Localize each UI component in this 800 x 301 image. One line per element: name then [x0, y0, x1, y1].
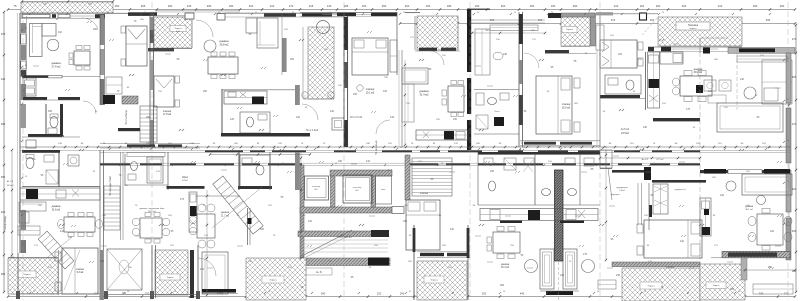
- dimension chain right: [795, 25, 797, 292]
- svg-text:320: 320: [482, 292, 487, 296]
- dimension chain right2: [788, 60, 790, 250]
- svg-text:305: 305: [48, 110, 53, 113]
- sofa RL: [742, 174, 792, 195]
- svg-text:210: 210: [200, 268, 205, 271]
- svg-text:210: 210: [740, 78, 745, 81]
- corridor mid details: [332, 118, 344, 130]
- svg-text:150: 150: [290, 58, 295, 61]
- svg-text:150: 150: [403, 220, 408, 223]
- svg-text:5.6м2: 5.6м2: [619, 190, 625, 192]
- door arc A2: [196, 20, 213, 37]
- shower LL: [46, 170, 58, 184]
- bed RL: [644, 220, 702, 258]
- stairs A1: [140, 106, 157, 142]
- svg-text:210: 210: [270, 4, 275, 8]
- long hatched band bottom mid: [298, 258, 390, 266]
- axis lines: [22, 2, 24, 300]
- balcony A3 walls: [414, 16, 416, 50]
- twin couch left: [540, 249, 554, 289]
- svg-text:410: 410: [366, 160, 371, 163]
- sofa A5: [717, 103, 783, 132]
- wall x150: [149, 12, 151, 147]
- balcony A4 border: [591, 13, 596, 46]
- wardrobe RL2: [653, 184, 668, 214]
- axis dashed right: [736, 47, 738, 110]
- svg-text:дневна: дневна: [219, 39, 229, 43]
- dark box top A5: [640, 13, 647, 20]
- svg-text:270: 270: [792, 37, 797, 41]
- svg-text:440: 440: [520, 292, 525, 296]
- svg-text:Тераса: Тераса: [713, 285, 721, 287]
- vertical wall x100 low: [99, 150, 101, 300]
- svg-text:120: 120: [720, 194, 725, 197]
- wardrobe A2b: [390, 40, 397, 72]
- dim marks A4 zone: [472, 32, 545, 34]
- stove A1: [103, 95, 115, 104]
- svg-text:30.4 м2: 30.4 м2: [694, 71, 703, 74]
- svg-text:КЛ.2 А/1.93: КЛ.2 А/1.93: [350, 116, 363, 119]
- svg-text:100: 100: [145, 292, 150, 296]
- X wardrobe room: [107, 249, 142, 290]
- closet A1: [26, 140, 36, 148]
- svg-text:120: 120: [770, 230, 775, 233]
- pillar A2: [282, 38, 287, 72]
- svg-text:Ап 5.Р: Ап 5.Р: [642, 158, 649, 161]
- svg-text:260: 260: [530, 4, 535, 8]
- svg-text:170: 170: [289, 4, 294, 8]
- wall A2 kitchen left: [221, 89, 223, 136]
- svg-text:87.7м2: 87.7м2: [657, 159, 665, 161]
- svg-text:410: 410: [58, 31, 63, 34]
- armchairs A5r: [704, 80, 716, 91]
- coffee table A2: [204, 40, 216, 52]
- planter right top: [737, 56, 787, 62]
- office LL2: [167, 152, 169, 190]
- core left wall band: [300, 165, 304, 260]
- bath LL walls: [22, 150, 60, 153]
- right outer wall: [786, 53, 791, 103]
- table RL2: [757, 214, 783, 245]
- svg-text:175: 175: [180, 198, 185, 201]
- svg-text:410: 410: [614, 4, 619, 8]
- svg-text:75: 75: [14, 4, 17, 8]
- svg-text:Пл.стълбище: Пл.стълбище: [125, 109, 128, 125]
- wall x344: [343, 14, 345, 147]
- strong wall A3: [467, 9, 471, 72]
- wall x600: [599, 12, 601, 147]
- twin circles: [525, 260, 538, 273]
- svg-text:185: 185: [344, 4, 349, 8]
- bath LL2: [124, 154, 126, 185]
- svg-text:175: 175: [686, 108, 691, 111]
- bath A5: [605, 75, 641, 94]
- dimension chain top: [8, 9, 795, 11]
- svg-text:230: 230: [353, 93, 358, 96]
- top-left wall band: [20, 12, 113, 14]
- terrace RL dim: [745, 269, 795, 271]
- svg-text:210: 210: [296, 116, 301, 119]
- corner block right top: [703, 48, 710, 54]
- bed LM2: [406, 200, 440, 250]
- balcony hatch top-left: [21, 2, 113, 13]
- tick clusters: [129, 74, 131, 76]
- terrace hatch LM: [246, 258, 306, 300]
- wall top mid: [300, 12, 397, 14]
- kitchen counter A1: [23, 78, 36, 96]
- dining table LL2: [140, 218, 162, 238]
- wall A3 left: [401, 50, 403, 147]
- dimension chain bottom: [8, 296, 795, 298]
- svg-text:330: 330: [759, 292, 764, 296]
- svg-text:260: 260: [203, 90, 208, 93]
- svg-text:230: 230: [490, 170, 495, 173]
- closet A3r: [475, 29, 490, 75]
- corridor wall top: [20, 149, 790, 151]
- sink LL: [44, 155, 54, 162]
- svg-text:470: 470: [792, 122, 797, 126]
- door arc LM: [198, 258, 216, 276]
- kitchen wall A1b: [23, 97, 47, 100]
- stair band LM2: [405, 155, 410, 200]
- svg-text:маш.: маш.: [381, 189, 386, 191]
- dining table A3: [448, 86, 464, 112]
- svg-text:200: 200: [656, 4, 661, 8]
- svg-text:дневна: дневна: [501, 263, 510, 266]
- svg-text:375: 375: [1, 32, 6, 36]
- svg-text:120: 120: [230, 118, 235, 121]
- svg-text:дневна: дневна: [419, 89, 429, 93]
- shelf A4 top: [490, 25, 538, 31]
- kitchen LL: [20, 188, 100, 200]
- bed A1: [126, 26, 147, 66]
- svg-text:260: 260: [146, 116, 151, 119]
- svg-text:Пл.асансьор: Пл.асансьор: [375, 140, 378, 155]
- door arc A1b: [83, 101, 96, 114]
- wall x414 low: [413, 225, 415, 300]
- stair treads mid: [300, 239, 388, 241]
- vertical hatch strip A2: [308, 27, 334, 99]
- svg-text:250: 250: [382, 4, 387, 8]
- walls LM: [238, 152, 240, 190]
- pillar A2b: [295, 85, 300, 105]
- column circle: [317, 21, 330, 34]
- svg-text:230: 230: [503, 53, 508, 56]
- terrace hatch LLb: [155, 250, 188, 295]
- wardrobe A5 left: [596, 25, 604, 50]
- svg-text:410: 410: [390, 116, 395, 119]
- wall A1 stairs dark: [118, 128, 140, 131]
- svg-text:дневна с кухненски бокс: дневна с кухненски бокс: [140, 208, 166, 210]
- dark wall vertical mid: [555, 170, 564, 261]
- svg-text:400: 400: [792, 229, 797, 233]
- svg-text:25.8 м2: 25.8 м2: [220, 43, 230, 47]
- core wall top: [330, 170, 392, 176]
- bed A2b: [352, 38, 388, 75]
- svg-text:440: 440: [1, 77, 6, 81]
- terrace rail A3: [471, 19, 545, 21]
- wall below deck: [648, 46, 742, 48]
- svg-text:31.8 м2: 31.8 м2: [52, 209, 61, 212]
- sofa A3 wall: [402, 68, 428, 84]
- terrace hatch RL: [622, 268, 700, 301]
- sill LM: [202, 289, 236, 293]
- svg-text:455: 455: [792, 75, 797, 79]
- balcony A2 label: [170, 26, 186, 32]
- svg-text:410: 410: [60, 230, 65, 233]
- wall RL stair: [637, 183, 639, 225]
- bed A2 second: [154, 76, 174, 107]
- corridor wall right: [700, 170, 790, 173]
- svg-text:асансьор: асансьор: [353, 187, 362, 189]
- svg-text:160: 160: [551, 4, 556, 8]
- svg-text:Баня: Баня: [495, 111, 500, 113]
- terrace hatch RL2: [700, 264, 745, 300]
- bath LM: [240, 155, 270, 188]
- svg-text:260: 260: [207, 4, 212, 8]
- svg-text:Тераса: Тераса: [167, 277, 175, 279]
- svg-text:250: 250: [115, 4, 120, 8]
- svg-text:120: 120: [383, 90, 388, 93]
- svg-text:32.2 м2: 32.2 м2: [148, 211, 156, 213]
- svg-text:Офис: Офис: [182, 176, 189, 179]
- wall x519: [518, 12, 520, 147]
- dimension chain top2: [400, 23, 795, 25]
- svg-text:200: 200: [405, 4, 410, 8]
- svg-text:320: 320: [682, 4, 687, 8]
- tv cabinet A5: [762, 60, 792, 104]
- svg-text:спалня: спалня: [76, 268, 85, 271]
- svg-text:250: 250: [1, 175, 6, 179]
- svg-text:А1 2.4: А1 2.4: [7, 180, 14, 183]
- long sill band RL2: [722, 251, 790, 257]
- toilet LL: [26, 158, 34, 169]
- window band corridor left: [100, 143, 200, 145]
- svg-text:гардеробна: гардеробна: [674, 189, 686, 191]
- dining table mid2: [493, 232, 520, 253]
- svg-text:Тераса: Тераса: [430, 280, 438, 282]
- svg-text:Тераса: Тераса: [174, 28, 182, 30]
- side table A5: [764, 88, 778, 101]
- twin dashed: [558, 262, 560, 300]
- left wall blocks lower: [21, 84, 26, 100]
- core wall right: [371, 176, 376, 207]
- svg-text:340: 340: [321, 292, 326, 296]
- kitchen A3: [416, 130, 468, 140]
- svg-text:180: 180: [229, 4, 234, 8]
- svg-text:вх. Б: вх. Б: [316, 271, 322, 274]
- svg-text:410: 410: [680, 240, 685, 243]
- svg-text:Пл.коридор 4.5м2: Пл.коридор 4.5м2: [109, 175, 112, 196]
- kitchen A2: [224, 91, 267, 104]
- terrace hatch LL: [8, 258, 58, 294]
- svg-text:455: 455: [1, 122, 6, 126]
- dining table LM: [197, 214, 215, 238]
- svg-text:94.5м2: 94.5м2: [621, 132, 629, 135]
- svg-text:320: 320: [501, 4, 506, 8]
- svg-text:120: 120: [618, 53, 623, 56]
- coffee table A1: [47, 39, 59, 51]
- wall LM2 right: [467, 225, 469, 300]
- core wall bottom: [300, 207, 393, 213]
- washer LL: [68, 155, 79, 166]
- kitchen wall A1: [20, 76, 100, 78]
- bath row walls: [478, 152, 600, 155]
- svg-text:спалня: спалня: [163, 110, 172, 113]
- svg-text:Тераса: Тераса: [23, 274, 31, 276]
- density marks: [29, 13, 31, 15]
- svg-text:220: 220: [249, 4, 254, 8]
- dining table A5: [680, 76, 712, 96]
- svg-text:30.4 м2: 30.4 м2: [501, 267, 510, 269]
- sink A1: [48, 128, 57, 134]
- svg-text:305: 305: [730, 288, 735, 291]
- svg-text:21.7 м2: 21.7 м2: [221, 215, 230, 218]
- svg-text:34.5м2: 34.5м2: [7, 185, 15, 187]
- svg-text:230: 230: [643, 126, 648, 129]
- pillar A5: [696, 85, 703, 93]
- svg-text:220: 220: [377, 292, 382, 296]
- kitchen col LL2: [189, 192, 197, 232]
- stairs LL diag: [38, 231, 74, 269]
- svg-text:250: 250: [780, 4, 785, 8]
- sofa LL: [19, 202, 46, 211]
- svg-text:27.6 м2: 27.6 м2: [52, 65, 62, 69]
- svg-text:230: 230: [616, 274, 621, 277]
- extra vchain entrance: [206, 190, 208, 295]
- corridor walls LL2: [120, 152, 122, 240]
- svg-text:410: 410: [718, 4, 723, 8]
- svg-text:17.8 м2: 17.8 м2: [163, 114, 172, 116]
- balcony A2 walls: [154, 15, 192, 17]
- steps bottom mid right: [598, 280, 616, 289]
- stair wall LM: [247, 208, 249, 245]
- svg-text:215: 215: [309, 4, 314, 8]
- wall A2 mid dark: [221, 133, 310, 136]
- svg-text:175: 175: [583, 253, 588, 256]
- svg-text:420: 420: [1, 210, 6, 214]
- svg-text:230: 230: [100, 260, 105, 263]
- svg-text:9.3 м2: 9.3 м2: [77, 272, 84, 274]
- balcony hatch A4: [561, 17, 590, 46]
- wall bedroom A1 top: [105, 12, 130, 14]
- entrance stairs diag: [213, 176, 263, 234]
- wall LM2: [196, 195, 240, 197]
- bath A4: [474, 89, 519, 91]
- corridor wall bottom: [100, 162, 700, 164]
- svg-text:35.1 м2: 35.1 м2: [745, 209, 753, 211]
- svg-text:260: 260: [168, 4, 173, 8]
- stairs LM2: [412, 158, 452, 196]
- wall A4 below balcony: [545, 50, 569, 53]
- balcony hatch A3: [417, 16, 458, 50]
- svg-text:асансьор: асансьор: [312, 186, 321, 188]
- svg-text:130: 130: [187, 4, 192, 8]
- svg-text:31.4 м2: 31.4 м2: [420, 93, 430, 97]
- bottom walls row: [18, 293, 100, 295]
- top-left mini chain: [22, 1, 113, 3]
- roof deck hatch: [658, 17, 742, 46]
- walls LLb: [151, 245, 153, 298]
- svg-text:305: 305: [260, 228, 265, 231]
- counter A1b: [106, 77, 122, 94]
- svg-text:15.1 м2: 15.1 м2: [366, 92, 375, 95]
- svg-text:преддверие: преддверие: [616, 187, 628, 189]
- svg-text:тераса: тераса: [690, 28, 698, 30]
- svg-text:Покривна: Покривна: [688, 25, 699, 27]
- kitchen RL2: [700, 198, 711, 236]
- svg-text:240: 240: [400, 292, 405, 296]
- svg-text:дневна: дневна: [51, 61, 61, 65]
- planter bottom right: [753, 284, 793, 294]
- dimension chain left2: [11, 150, 13, 292]
- core wall mid: [331, 176, 336, 207]
- svg-text:Тераса: Тераса: [647, 286, 655, 288]
- wall A1 bottom: [28, 134, 62, 137]
- left outer wall: [19, 13, 21, 253]
- wall x103 pillar: [100, 15, 104, 45]
- stool A5: [744, 87, 756, 99]
- core band lower: [298, 231, 388, 237]
- stairs LL2: [104, 186, 120, 230]
- door arc A1: [82, 18, 98, 30]
- svg-text:260: 260: [93, 28, 98, 31]
- door arc A3: [430, 51, 444, 65]
- sofa LM: [202, 252, 228, 294]
- stairs small hatch: [122, 96, 138, 104]
- svg-text:4.8 Б: 4.8 Б: [9, 257, 15, 259]
- corridor chain2: [210, 154, 310, 156]
- window band A4: [520, 140, 600, 142]
- bath A2: [240, 112, 270, 133]
- sofa A2: [257, 18, 278, 48]
- bed LL: [62, 248, 98, 294]
- svg-text:410: 410: [330, 110, 335, 113]
- toilet A1: [50, 117, 58, 128]
- bed A4: [536, 76, 572, 134]
- dimension chain left: [3, 12, 5, 292]
- dining table A1: [74, 51, 90, 65]
- bath A1 walls: [45, 104, 47, 136]
- svg-text:410: 410: [308, 220, 313, 223]
- machine room: [376, 176, 392, 204]
- svg-text:Тераса: Тераса: [566, 29, 574, 31]
- balcony rail above: [155, 10, 240, 12]
- svg-text:8.7м2: 8.7м2: [182, 180, 189, 182]
- svg-text:290: 290: [753, 4, 758, 8]
- svg-text:190: 190: [475, 4, 480, 8]
- wall A5 mid: [600, 95, 640, 98]
- wardrobe RL: [600, 150, 612, 168]
- twin couch right: [563, 249, 577, 289]
- dining table LL: [64, 217, 95, 232]
- svg-text:410: 410: [450, 228, 455, 231]
- corridor dim chain: [20, 146, 790, 148]
- wall x397: [396, 12, 398, 75]
- svg-text:140: 140: [327, 4, 332, 8]
- kitchen band LM3: [480, 209, 598, 221]
- svg-text:15.6 м2: 15.6 м2: [562, 107, 571, 110]
- terrace wall RL2: [741, 258, 747, 280]
- svg-text:коридор: коридор: [624, 151, 633, 153]
- svg-text:150: 150: [453, 118, 458, 121]
- svg-text:160: 160: [362, 4, 367, 8]
- twin base: [546, 291, 573, 295]
- kitchen A5: [648, 52, 660, 108]
- svg-text:470: 470: [611, 18, 616, 22]
- window sill band right top: [728, 48, 795, 54]
- svg-text:540: 540: [766, 18, 771, 22]
- svg-text:северозапад: северозапад: [5, 216, 7, 230]
